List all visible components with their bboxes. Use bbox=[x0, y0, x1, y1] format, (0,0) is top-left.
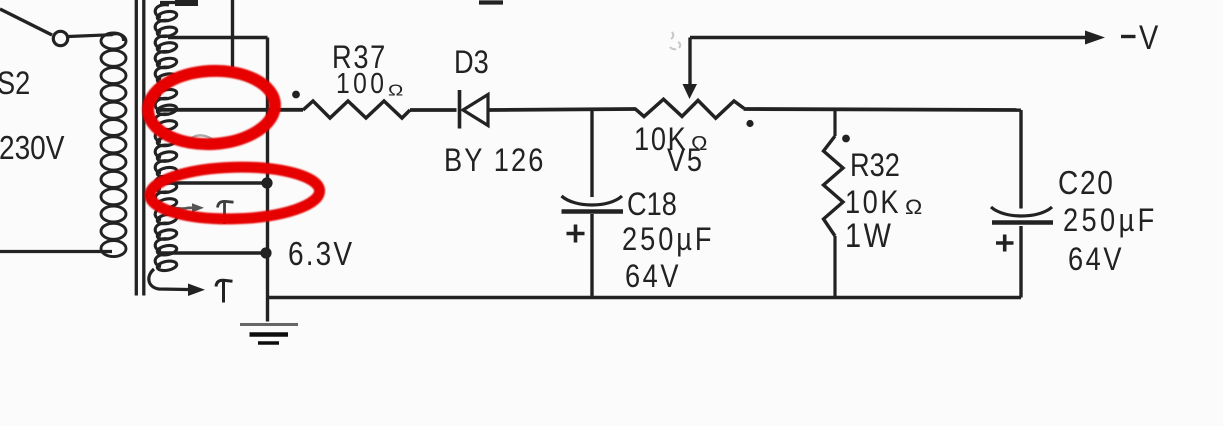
red annotation ellipse 1 bbox=[146, 68, 277, 148]
wire primary bottom lead bbox=[0, 250, 112, 253]
switch S2 arm bbox=[0, 9, 52, 35]
wire wiper to -V output bbox=[690, 36, 1098, 39]
junction dot at 6.3V tap bbox=[260, 247, 271, 258]
value 250uF (C20) bbox=[1063, 203, 1158, 239]
label R37 bbox=[332, 40, 387, 76]
label C18 bbox=[627, 187, 677, 223]
label 230V bbox=[0, 130, 65, 167]
svg-text:S2: S2 bbox=[0, 66, 30, 102]
svg-text:64V: 64V bbox=[1068, 242, 1124, 278]
value 10K ohm (R32) bbox=[845, 185, 901, 221]
transformer T1 secondary winding bbox=[155, 5, 177, 272]
wire R37 to D3 bbox=[410, 108, 457, 112]
plus sign of C20 bbox=[996, 235, 1014, 252]
polarity dot at HV tap bbox=[292, 91, 300, 99]
wire secondary tap (filament top) bbox=[164, 181, 267, 184]
net label -V bbox=[1121, 35, 1136, 38]
potentiometer V5 wiper bbox=[683, 38, 698, 100]
faint ghost squiggle bbox=[186, 135, 212, 143]
svg-text:C18: C18 bbox=[627, 187, 677, 223]
svg-text:6.3V: 6.3V bbox=[288, 236, 354, 273]
capacitor C18 bbox=[562, 110, 624, 298]
svg-text:1W: 1W bbox=[845, 216, 893, 255]
wire pot to R32 branch and C20 branch bbox=[744, 109, 1022, 110]
plus sign of C18 bbox=[567, 225, 585, 243]
wire switch to transformer primary bbox=[69, 35, 113, 37]
wire ground rail vertical bbox=[266, 38, 269, 322]
svg-text:C20: C20 bbox=[1058, 165, 1115, 202]
svg-text:Ω: Ω bbox=[388, 81, 403, 99]
value 6.3V bbox=[288, 236, 354, 273]
dot after potentiometer bbox=[746, 120, 753, 127]
value 250uF (C18) bbox=[622, 222, 715, 258]
value 64V (C20) bbox=[1068, 242, 1124, 278]
value 1W bbox=[845, 216, 893, 255]
value 100 ohm bbox=[336, 67, 387, 99]
value 64V (C18) bbox=[625, 259, 681, 295]
svg-text:250µF: 250µF bbox=[1063, 203, 1158, 239]
potentiometer V5 track bbox=[635, 99, 744, 118]
label C20 bbox=[1058, 165, 1115, 202]
arrowhead -V output bbox=[1085, 31, 1105, 45]
resistor R37 bbox=[303, 101, 410, 118]
stray mark top middle bbox=[479, 0, 503, 4]
svg-text:100: 100 bbox=[336, 67, 387, 99]
ground symbol bbox=[240, 325, 298, 344]
svg-text:250µF: 250µF bbox=[622, 222, 715, 258]
resistor R32 bbox=[824, 110, 844, 298]
label D3 bbox=[454, 45, 489, 81]
wire secondary 6.3V tap bbox=[158, 251, 266, 254]
net label f lower bbox=[216, 280, 233, 302]
wire D3 to output node (main top rail) bbox=[489, 109, 636, 110]
svg-text:64V: 64V bbox=[625, 259, 681, 295]
label S2 bbox=[0, 66, 30, 102]
label R32 bbox=[850, 148, 900, 184]
transformer T1 primary winding bbox=[101, 33, 126, 257]
wire secondary HV tap to R37 bbox=[157, 108, 303, 112]
label V5 bbox=[667, 143, 704, 179]
dot near R32 bbox=[842, 135, 850, 143]
capacitor C20 bbox=[991, 110, 1053, 298]
value BY 126 bbox=[444, 143, 545, 179]
junction dot at tap bbox=[261, 177, 272, 188]
svg-text:V: V bbox=[1139, 18, 1158, 57]
wire secondary tap to ground rail bbox=[168, 36, 268, 39]
svg-text:R32: R32 bbox=[850, 148, 900, 184]
net label f upper bbox=[218, 201, 234, 224]
svg-text:D3: D3 bbox=[454, 45, 489, 81]
faint scribble near wiper corner bbox=[670, 32, 680, 49]
transformer core bbox=[136, 0, 144, 296]
red annotation ellipse 2 bbox=[149, 165, 320, 221]
svg-text:BY 126: BY 126 bbox=[444, 143, 545, 179]
svg-text:Ω: Ω bbox=[905, 195, 922, 219]
value 10K ohm (pot) bbox=[634, 122, 687, 158]
svg-text:V5: V5 bbox=[667, 143, 704, 179]
switch S2 contact circle bbox=[53, 31, 67, 45]
wire vertical stub from top edge bbox=[231, 0, 234, 67]
diode D3 bbox=[460, 90, 489, 129]
wire bottom rail bbox=[268, 296, 1022, 300]
filament lead arrow f upper bbox=[168, 203, 204, 212]
wire secondary top lead bbox=[160, 0, 198, 6]
svg-text:230V: 230V bbox=[0, 130, 65, 167]
filament lead arrow f lower bbox=[149, 269, 205, 296]
